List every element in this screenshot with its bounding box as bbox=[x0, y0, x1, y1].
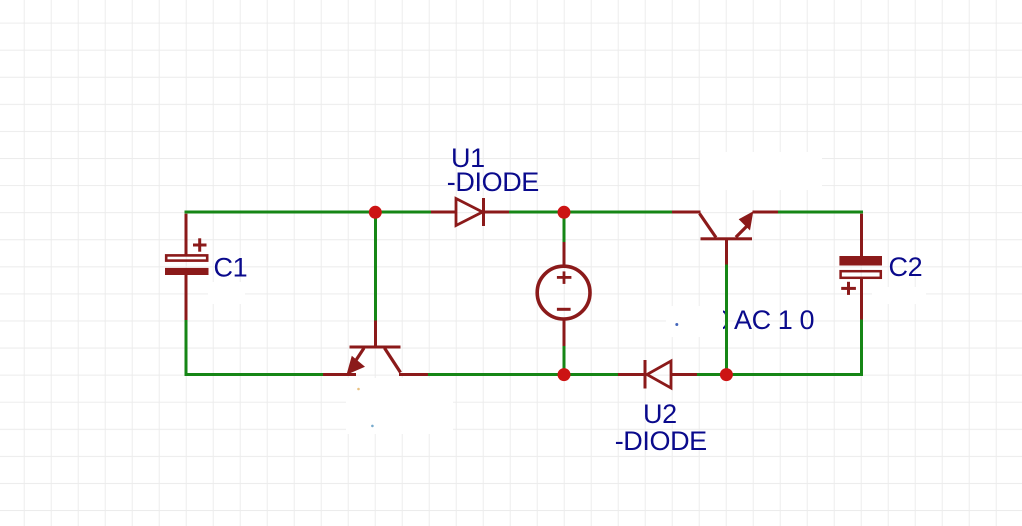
transistor Q2 base bar bbox=[701, 237, 753, 240]
wire left vertical lower segment bbox=[185, 319, 188, 377]
diode U2 cathode bar bbox=[644, 360, 647, 389]
wire Q2 base vertical bbox=[725, 264, 728, 375]
capacitor C1 bottom pin bbox=[185, 275, 188, 321]
transistor Q2 emitter diagonal bbox=[736, 227, 747, 238]
AC source V1 circle bbox=[537, 266, 590, 319]
capacitor C2 bottom pin bbox=[860, 279, 863, 320]
capacitor C2 plus sign bbox=[841, 282, 856, 295]
svg-text:-DIODE: -DIODE bbox=[447, 167, 539, 197]
wire Q1 base vertical bbox=[374, 212, 377, 322]
capacitor C2 top plate bbox=[839, 256, 882, 266]
capacitor C1 plus sign bbox=[193, 238, 207, 251]
wire top net left segment bbox=[185, 211, 432, 214]
wire AC source top vertical bbox=[563, 212, 566, 243]
capacitor C2 bottom plate bbox=[841, 271, 881, 278]
capacitor C1 bottom plate bbox=[165, 268, 209, 275]
transistor Q2 emitter wire stub bbox=[753, 211, 779, 214]
diode U2 right pin bbox=[671, 373, 697, 376]
transistor Q1 emitter arrow bbox=[347, 356, 366, 375]
wire bottom net middle segment bbox=[428, 373, 618, 376]
AC source V1 plus sign bbox=[557, 271, 572, 284]
wire bottom net right segment bbox=[697, 373, 863, 376]
white patch right of C2 plus bbox=[872, 287, 926, 304]
svg-text:U2: U2 bbox=[643, 399, 677, 429]
junction node bottom left bbox=[558, 368, 571, 381]
diode U2 triangle bbox=[647, 361, 671, 388]
transistor Q1 collector diagonal bbox=[385, 348, 401, 373]
white patch below C1 label bbox=[208, 282, 245, 304]
capacitor C1 top pin bbox=[185, 214, 188, 255]
wire top net right segment bbox=[778, 211, 863, 214]
junction node top left bbox=[369, 206, 382, 219]
wire AC source bottom vertical bbox=[563, 345, 566, 375]
AC source V1 top pin bbox=[563, 242, 566, 267]
transistor Q1 base bar bbox=[350, 346, 401, 349]
wire bottom net left segment bbox=[185, 373, 324, 376]
white patch below Q1 bbox=[346, 378, 453, 434]
capacitor C2 top pin bbox=[860, 214, 863, 257]
junction node bottom right bbox=[720, 368, 733, 381]
svg-text:AC 1 0: AC 1 0 bbox=[734, 305, 814, 335]
diode U1 triangle bbox=[456, 199, 483, 226]
transistor Q1 emitter wire stub bbox=[323, 373, 356, 376]
junction node top right bbox=[558, 206, 571, 219]
transistor Q2 base lead bbox=[725, 240, 728, 265]
wire right vertical lower segment bbox=[860, 318, 863, 376]
transistor Q1 base lead bbox=[374, 321, 377, 347]
diode U1 cathode bar bbox=[482, 198, 485, 226]
AC source V1 minus sign bbox=[557, 308, 571, 311]
svg-text:C2: C2 bbox=[889, 252, 923, 282]
cyan speck below Q1 bbox=[371, 425, 374, 428]
transistor Q1 collector wire stub bbox=[399, 373, 428, 376]
yellow speck below Q1 bbox=[357, 388, 360, 391]
svg-text:-DIODE: -DIODE bbox=[615, 426, 707, 456]
capacitor C1 top plate bbox=[166, 255, 207, 260]
diode U2 left pin bbox=[618, 373, 645, 376]
white patch left of AC label bbox=[666, 306, 723, 337]
svg-text:C1: C1 bbox=[214, 252, 248, 282]
diode U1 anode pin bbox=[431, 211, 456, 214]
transistor Q2 collector diagonal bbox=[700, 214, 717, 238]
white patch above Q2 bbox=[700, 152, 822, 190]
transistor Q2 emitter arrow bbox=[739, 211, 754, 230]
transistor Q1 emitter diagonal bbox=[354, 348, 365, 364]
blue speck left of AC label bbox=[675, 323, 678, 326]
AC source V1 bottom pin bbox=[563, 319, 566, 346]
wire top net middle segment bbox=[509, 211, 672, 214]
diode U1 cathode pin bbox=[483, 211, 509, 214]
transistor Q2 collector wire stub bbox=[672, 211, 701, 214]
